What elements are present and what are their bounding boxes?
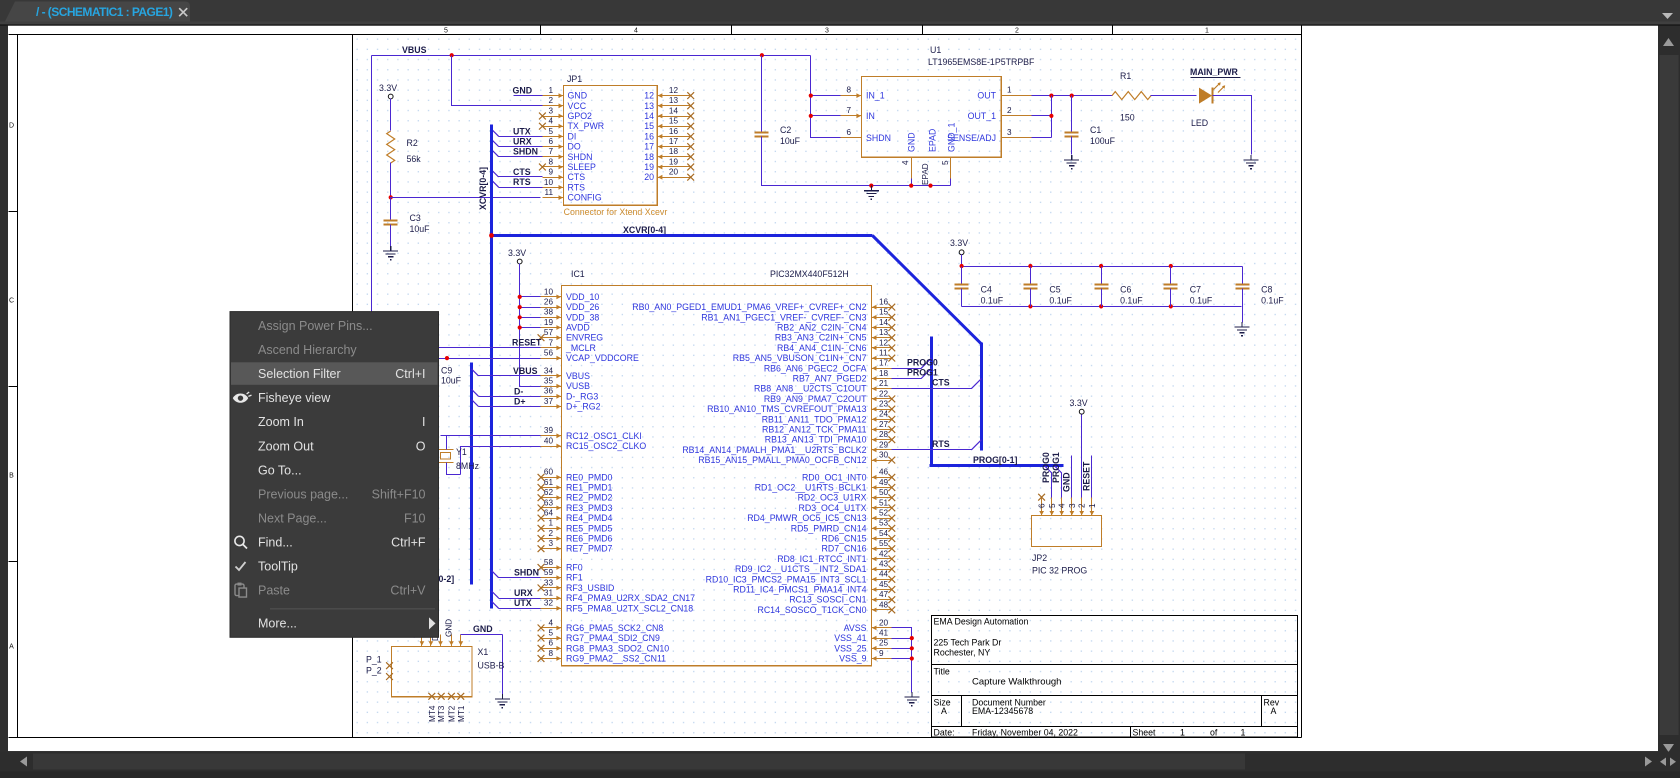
svg-text:C1: C1	[1090, 125, 1101, 135]
svg-text:2: 2	[548, 529, 553, 538]
svg-text:PROG1: PROG1	[907, 368, 938, 378]
svg-text:URX: URX	[514, 588, 533, 598]
svg-text:JP2: JP2	[1032, 553, 1047, 563]
svg-text:8MHz: 8MHz	[456, 461, 479, 471]
svg-text:R1: R1	[1120, 71, 1131, 81]
svg-text:Sheet: Sheet	[1133, 727, 1157, 737]
svg-text:Title: Title	[934, 667, 950, 677]
svg-text:58: 58	[544, 558, 554, 567]
svg-text:52: 52	[879, 509, 889, 518]
svg-text:GND_1: GND_1	[947, 123, 957, 152]
svg-text:CTS: CTS	[513, 167, 531, 177]
svg-text:13: 13	[644, 101, 654, 111]
svg-text:Selection Filter: Selection Filter	[258, 367, 341, 381]
svg-text:C7: C7	[1190, 285, 1201, 295]
svg-text:7: 7	[548, 338, 553, 347]
svg-text:LT1965EMS8E-1P5TRPBF: LT1965EMS8E-1P5TRPBF	[928, 57, 1035, 67]
svg-text:B: B	[9, 473, 14, 480]
svg-text:PIC 32 PROG: PIC 32 PROG	[1032, 566, 1087, 576]
svg-text:A: A	[941, 706, 947, 716]
svg-text:ToolTip: ToolTip	[258, 560, 298, 574]
svg-text:D+_RG2: D+_RG2	[566, 402, 601, 412]
svg-text:PIC32MX440F512H: PIC32MX440F512H	[770, 269, 849, 279]
svg-text:25: 25	[879, 639, 889, 648]
svg-text:RB15_AN15_PMALL_PMA0_OCFB_CN12: RB15_AN15_PMALL_PMA0_OCFB_CN12	[698, 455, 866, 465]
svg-text:GND: GND	[568, 91, 588, 101]
svg-text:RF5_PMA8_U2TX_SCL2_CN18: RF5_PMA8_U2TX_SCL2_CN18	[566, 603, 693, 613]
svg-text:30: 30	[879, 451, 889, 460]
svg-text:Ctrl+F: Ctrl+F	[391, 535, 426, 549]
svg-text:AVSS: AVSS	[844, 623, 867, 633]
svg-text:Connector for Xtend Xcevr: Connector for Xtend Xcevr	[564, 207, 668, 217]
svg-text:I: I	[422, 415, 425, 429]
svg-text:4: 4	[901, 160, 910, 165]
svg-text:RB7_AN7_PGED2: RB7_AN7_PGED2	[793, 374, 867, 384]
svg-text:Y1: Y1	[456, 447, 467, 457]
svg-text:RB0_AN0_PGED1_EMUD1_PMA6_VREF+: RB0_AN0_PGED1_EMUD1_PMA6_VREF+_CVREF+_CN…	[632, 302, 866, 312]
svg-text:61: 61	[544, 478, 554, 487]
svg-text:17: 17	[644, 142, 654, 152]
svg-text:Next Page...: Next Page...	[258, 511, 327, 525]
svg-text:RE7_PMD7: RE7_PMD7	[566, 544, 613, 554]
svg-text:RB3_AN3_C2IN+_CN5: RB3_AN3_C2IN+_CN5	[775, 333, 867, 343]
svg-text:URX: URX	[513, 137, 532, 147]
svg-text:A: A	[9, 644, 14, 651]
svg-text:Capture Walkthrough: Capture Walkthrough	[972, 677, 1061, 688]
svg-text:28: 28	[879, 430, 889, 439]
svg-text:TX_PWR: TX_PWR	[568, 121, 605, 131]
svg-text:MT2: MT2	[447, 705, 456, 722]
svg-text:Ctrl+V: Ctrl+V	[390, 584, 426, 598]
svg-text:9: 9	[548, 168, 553, 177]
svg-text:16: 16	[644, 131, 654, 141]
svg-text:EMA-12345678: EMA-12345678	[972, 706, 1033, 716]
svg-text:D: D	[9, 123, 14, 130]
svg-text:45: 45	[879, 580, 889, 589]
svg-text:RG6_PMA5_SCK2_CN8: RG6_PMA5_SCK2_CN8	[566, 623, 663, 633]
svg-text:of: of	[1210, 727, 1218, 737]
svg-text:2: 2	[1007, 106, 1012, 115]
svg-text:44: 44	[879, 570, 889, 579]
svg-text:2: 2	[1015, 28, 1019, 35]
svg-text:35: 35	[544, 377, 554, 386]
svg-text:RESET: RESET	[512, 338, 542, 348]
svg-text:LED: LED	[1191, 118, 1208, 128]
svg-text:Zoom Out: Zoom Out	[258, 439, 314, 453]
svg-text:RB14_AN14_PMALH_PMA1__U2RTS_BC: RB14_AN14_PMALH_PMA1__U2RTS_BCLK2	[682, 445, 866, 455]
svg-text:150: 150	[1120, 113, 1135, 123]
svg-text:6: 6	[548, 137, 553, 146]
svg-text:USB-B: USB-B	[478, 661, 505, 671]
svg-text:EPAD: EPAD	[928, 129, 938, 152]
svg-text:37: 37	[544, 397, 554, 406]
svg-text:PROG0: PROG0	[1041, 452, 1051, 483]
svg-text:13: 13	[879, 328, 889, 337]
svg-text:C6: C6	[1120, 285, 1131, 295]
svg-text:RG7_PMA4_SDI2_CN9: RG7_PMA4_SDI2_CN9	[566, 633, 660, 643]
svg-text:15: 15	[644, 121, 654, 131]
svg-text:10uF: 10uF	[780, 136, 801, 146]
svg-text:GND: GND	[473, 624, 493, 634]
svg-text:MT3: MT3	[437, 705, 446, 722]
svg-text:5: 5	[444, 28, 448, 35]
svg-text:63: 63	[544, 498, 554, 507]
svg-text:C5: C5	[1049, 285, 1060, 295]
svg-text:More...: More...	[258, 616, 297, 630]
svg-text:IC1: IC1	[571, 269, 585, 279]
svg-text:A: A	[1271, 706, 1277, 716]
svg-text:RG8_PMA3_SDO2_CN10: RG8_PMA3_SDO2_CN10	[566, 643, 669, 653]
svg-text:23: 23	[879, 400, 889, 409]
svg-text:12: 12	[879, 338, 889, 347]
svg-text:34: 34	[544, 366, 554, 375]
svg-text:RF1: RF1	[566, 573, 583, 583]
svg-text:RD8_IC1_RTCC_INT1: RD8_IC1_RTCC_INT1	[777, 554, 866, 564]
svg-text:SHDN: SHDN	[514, 568, 539, 578]
svg-text:VSS_41: VSS_41	[834, 633, 866, 643]
svg-text:Friday, November 04, 2022: Friday, November 04, 2022	[972, 727, 1078, 737]
svg-text:16: 16	[669, 127, 679, 136]
svg-text:RF4_PMA9_U2RX_SDA2_CN17: RF4_PMA9_U2RX_SDA2_CN17	[566, 593, 695, 603]
svg-text:RD9_IC2__U1CTS__INT2_SDA1: RD9_IC2__U1CTS__INT2_SDA1	[735, 564, 867, 574]
svg-text:12: 12	[644, 91, 654, 101]
svg-text:RE2_PMD2: RE2_PMD2	[566, 493, 613, 503]
svg-text:RESET: RESET	[1081, 461, 1091, 491]
svg-text:D+: D+	[514, 397, 526, 407]
svg-text:C8: C8	[1261, 285, 1272, 295]
svg-text:CTS: CTS	[568, 172, 586, 182]
svg-text:CTS: CTS	[932, 378, 950, 388]
svg-text:RC13_SOSCI_CN1: RC13_SOSCI_CN1	[789, 595, 866, 605]
svg-text:19: 19	[644, 162, 654, 172]
svg-text:RB9_AN9_PMA7_C2OUT: RB9_AN9_PMA7_C2OUT	[764, 394, 867, 404]
svg-text:C3: C3	[410, 213, 421, 223]
svg-text:8: 8	[548, 649, 553, 658]
svg-text:5: 5	[548, 629, 553, 638]
svg-text:/ - (SCHEMATIC1 : PAGE1): / - (SCHEMATIC1 : PAGE1)	[36, 5, 173, 19]
svg-text:P_2: P_2	[366, 666, 382, 676]
svg-text:VCAP_VDDCORE: VCAP_VDDCORE	[566, 353, 639, 363]
svg-text:19: 19	[544, 318, 554, 327]
svg-text:2: 2	[1078, 503, 1087, 508]
svg-text:VBUS: VBUS	[513, 366, 538, 376]
svg-text:UTX: UTX	[514, 598, 532, 608]
svg-text:1: 1	[1241, 727, 1246, 737]
svg-text:5: 5	[1048, 503, 1057, 508]
svg-text:59: 59	[544, 568, 554, 577]
svg-text:3.3V: 3.3V	[379, 83, 397, 93]
svg-text:_MCLR: _MCLR	[565, 343, 596, 353]
svg-text:53: 53	[879, 519, 889, 528]
svg-text:10uF: 10uF	[441, 376, 462, 386]
svg-text:X1: X1	[478, 647, 489, 657]
svg-text:10: 10	[544, 287, 554, 296]
svg-text:10: 10	[544, 178, 554, 187]
svg-text:3.3V: 3.3V	[508, 248, 526, 258]
svg-text:RD11_IC4_PMCS1_PMA14_INT4: RD11_IC4_PMCS1_PMA14_INT4	[733, 585, 866, 595]
svg-text:C4: C4	[981, 285, 992, 295]
svg-text:SHDN: SHDN	[513, 147, 538, 157]
svg-text:VSS_9: VSS_9	[839, 654, 866, 664]
svg-text:Shift+F10: Shift+F10	[372, 487, 426, 501]
svg-text:48: 48	[879, 600, 889, 609]
svg-text:RE0_PMD0: RE0_PMD0	[566, 472, 613, 482]
svg-text:8: 8	[548, 157, 553, 166]
svg-text:56k: 56k	[407, 154, 422, 164]
svg-text:6: 6	[548, 639, 553, 648]
svg-text:3.3V: 3.3V	[1070, 398, 1088, 408]
svg-text:C9: C9	[441, 366, 452, 376]
svg-text:6: 6	[846, 128, 851, 137]
svg-text:54: 54	[879, 529, 889, 538]
svg-text:0.1uF: 0.1uF	[1261, 296, 1284, 306]
svg-text:46: 46	[879, 468, 889, 477]
svg-text:3: 3	[825, 28, 829, 35]
svg-text:IN_1: IN_1	[866, 91, 885, 101]
svg-text:Date:: Date:	[934, 727, 955, 737]
svg-text:SLEEP: SLEEP	[568, 162, 596, 172]
svg-text:VCC: VCC	[568, 101, 587, 111]
svg-text:47: 47	[879, 590, 889, 599]
svg-text:225 Tech Park Dr: 225 Tech Park Dr	[934, 638, 1002, 648]
svg-text:MAIN_PWR: MAIN_PWR	[1190, 67, 1239, 77]
svg-text:36: 36	[544, 387, 554, 396]
svg-text:RE1_PMD1: RE1_PMD1	[566, 483, 613, 493]
svg-text:Go To...: Go To...	[258, 463, 302, 477]
svg-text:64: 64	[544, 509, 554, 518]
svg-text:F10: F10	[404, 511, 426, 525]
svg-text:39: 39	[544, 426, 554, 435]
svg-text:EPAD: EPAD	[921, 163, 930, 185]
svg-text:1: 1	[1180, 727, 1185, 737]
svg-text:20: 20	[669, 168, 679, 177]
svg-text:RTS: RTS	[513, 177, 531, 187]
svg-text:17: 17	[669, 137, 679, 146]
svg-text:RB10_AN10_TMS_CVREFOUT_PMA13: RB10_AN10_TMS_CVREFOUT_PMA13	[707, 404, 866, 414]
svg-text:100uF: 100uF	[1090, 136, 1116, 146]
svg-text:RD10_IC3_PMCS2_PMA15_INT3_SCL1: RD10_IC3_PMCS2_PMA15_INT3_SCL1	[706, 574, 867, 584]
svg-text:EMA Design Automation: EMA Design Automation	[934, 617, 1029, 627]
svg-text:JP1: JP1	[567, 74, 582, 84]
svg-text:18: 18	[644, 152, 654, 162]
svg-text:49: 49	[879, 478, 889, 487]
svg-text:RB4_AN4_C1IN-_CN6: RB4_AN4_C1IN-_CN6	[777, 343, 867, 353]
svg-text:60: 60	[544, 468, 554, 477]
svg-text:Ctrl+I: Ctrl+I	[395, 367, 425, 381]
svg-text:5: 5	[548, 127, 553, 136]
svg-text:RG9_PMA2__SS2_CN11: RG9_PMA2__SS2_CN11	[566, 654, 666, 664]
svg-text:OUT_1: OUT_1	[968, 111, 996, 121]
svg-text:18: 18	[669, 147, 679, 156]
svg-text:4: 4	[634, 28, 638, 35]
svg-text:14: 14	[669, 106, 679, 115]
svg-text:VDD_26: VDD_26	[566, 302, 599, 312]
svg-text:PROG0: PROG0	[907, 358, 938, 368]
svg-text:VDD_10: VDD_10	[566, 292, 599, 302]
svg-text:27: 27	[879, 420, 889, 429]
svg-text:RTS: RTS	[568, 182, 586, 192]
svg-text:XCVR[0-4]: XCVR[0-4]	[623, 225, 666, 235]
svg-text:11: 11	[545, 188, 554, 197]
svg-text:3: 3	[1068, 503, 1077, 508]
svg-text:GND: GND	[513, 86, 533, 96]
svg-text:8: 8	[846, 86, 851, 95]
svg-text:5: 5	[941, 160, 950, 165]
svg-text:1: 1	[1088, 503, 1097, 508]
svg-text:33: 33	[544, 578, 554, 587]
svg-text:31: 31	[544, 589, 554, 598]
svg-text:RD6_CN15: RD6_CN15	[822, 534, 867, 544]
svg-text:RD5_PMRD_CN14: RD5_PMRD_CN14	[791, 523, 867, 533]
svg-text:1: 1	[1205, 28, 1209, 35]
svg-text:14: 14	[879, 318, 889, 327]
svg-text:RD3_OC4_U1TX: RD3_OC4_U1TX	[799, 503, 867, 513]
svg-text:RF3_USBID: RF3_USBID	[566, 583, 614, 593]
svg-text:Paste: Paste	[258, 584, 290, 598]
svg-text:Zoom In: Zoom In	[258, 415, 304, 429]
svg-text:RC15_OSC2_CLKO: RC15_OSC2_CLKO	[566, 441, 646, 451]
svg-text:RD2_OC3_U1RX: RD2_OC3_U1RX	[798, 493, 867, 503]
svg-text:RD1_OC2__U1RTS_BCLK1: RD1_OC2__U1RTS_BCLK1	[755, 483, 867, 493]
svg-text:RB11_AN11_TDO_PMA12: RB11_AN11_TDO_PMA12	[762, 414, 867, 424]
svg-text:DO: DO	[568, 142, 581, 152]
svg-text:32: 32	[544, 599, 554, 608]
svg-text:16: 16	[879, 298, 889, 307]
svg-text:RE3_PMD3: RE3_PMD3	[566, 503, 613, 513]
svg-text:MT4: MT4	[428, 705, 437, 722]
svg-text:XCVR[0-4]: XCVR[0-4]	[478, 167, 488, 210]
svg-text:51: 51	[879, 498, 889, 507]
svg-text:41: 41	[879, 629, 889, 638]
svg-text:GPO2: GPO2	[568, 111, 593, 121]
svg-text:RD4_PMWR_OC5_IC5_CN13: RD4_PMWR_OC5_IC5_CN13	[747, 513, 866, 523]
svg-text:0.1uF: 0.1uF	[981, 296, 1004, 306]
svg-text:21: 21	[879, 379, 889, 388]
svg-text:0.1uF: 0.1uF	[1049, 296, 1072, 306]
svg-text:1: 1	[548, 519, 553, 528]
svg-text:Rochester, NY: Rochester, NY	[934, 648, 991, 658]
svg-text:PROG1: PROG1	[1051, 452, 1061, 483]
svg-text:GND: GND	[1061, 472, 1071, 492]
svg-text:GND: GND	[445, 619, 454, 637]
svg-text:RD7_CN16: RD7_CN16	[822, 544, 867, 554]
svg-text:20: 20	[879, 618, 889, 627]
svg-text:SHDN: SHDN	[568, 152, 593, 162]
svg-text:AVDD: AVDD	[566, 323, 590, 333]
svg-text:7: 7	[548, 147, 553, 156]
svg-text:24: 24	[879, 410, 889, 419]
svg-text:7: 7	[846, 106, 851, 115]
svg-text:C: C	[9, 298, 14, 305]
svg-text:3.3V: 3.3V	[950, 238, 968, 248]
svg-text:DI: DI	[568, 131, 577, 141]
svg-text:SHDN: SHDN	[866, 133, 891, 143]
svg-text:18: 18	[879, 369, 889, 378]
svg-text:57: 57	[544, 328, 554, 337]
svg-text:Ascend Hierarchy: Ascend Hierarchy	[258, 343, 357, 357]
svg-text:26: 26	[544, 298, 554, 307]
svg-text:6: 6	[1038, 503, 1047, 508]
svg-text:14: 14	[644, 111, 654, 121]
svg-text:Previous page...: Previous page...	[258, 487, 348, 501]
svg-text:1: 1	[548, 86, 553, 95]
svg-text:RC12_OSC1_CLKI: RC12_OSC1_CLKI	[566, 431, 642, 441]
svg-text:UTX: UTX	[513, 126, 531, 136]
svg-text:3: 3	[548, 106, 553, 115]
svg-text:20: 20	[644, 172, 654, 182]
svg-text:RE6_PMD6: RE6_PMD6	[566, 534, 613, 544]
svg-text:0.1uF: 0.1uF	[1120, 296, 1143, 306]
svg-text:IN: IN	[866, 111, 875, 121]
svg-text:2: 2	[548, 96, 553, 105]
svg-text:50: 50	[879, 488, 889, 497]
svg-text:56: 56	[544, 349, 554, 358]
svg-text:17: 17	[879, 359, 889, 368]
svg-text:RB5_AN5_VBUSON_C1IN+_CN7: RB5_AN5_VBUSON_C1IN+_CN7	[733, 353, 867, 363]
svg-text:29: 29	[879, 440, 889, 449]
svg-text:RC14_SOSCO_T1CK_CN0: RC14_SOSCO_T1CK_CN0	[757, 605, 866, 615]
svg-text:1: 1	[1007, 86, 1012, 95]
svg-text:62: 62	[544, 488, 554, 497]
svg-text:RB1_AN1_PGEC1_VREF-_CVREF-_CN3: RB1_AN1_PGEC1_VREF-_CVREF-_CN3	[701, 312, 866, 322]
svg-text:VBUS: VBUS	[566, 371, 590, 381]
svg-text:RB6_AN6_PGEC2_OCFA: RB6_AN6_PGEC2_OCFA	[764, 363, 867, 373]
svg-text:43: 43	[879, 560, 889, 569]
svg-text:VUSB: VUSB	[566, 381, 590, 391]
svg-text:4: 4	[1058, 503, 1067, 508]
svg-text:C2: C2	[780, 125, 791, 135]
svg-text:38: 38	[544, 308, 554, 317]
svg-text:OUT: OUT	[977, 91, 996, 101]
svg-text:VSS_25: VSS_25	[834, 643, 866, 653]
svg-text:13: 13	[669, 96, 679, 105]
svg-text:CONFIG: CONFIG	[568, 193, 602, 203]
svg-text:D-: D-	[514, 386, 523, 396]
svg-text:Fisheye view: Fisheye view	[258, 391, 331, 405]
svg-text:D-_RG3: D-_RG3	[566, 391, 598, 401]
svg-text:RTS: RTS	[932, 439, 950, 449]
svg-text:R2: R2	[407, 138, 418, 148]
svg-text:VBUS: VBUS	[402, 45, 427, 55]
svg-text:RD0_OC1_INT0: RD0_OC1_INT0	[802, 472, 867, 482]
svg-text:12: 12	[669, 86, 679, 95]
svg-text:RB12_AN12_TCK_PMA11: RB12_AN12_TCK_PMA11	[762, 425, 867, 435]
svg-text:RF0: RF0	[566, 563, 583, 573]
svg-text:P_1: P_1	[366, 655, 382, 665]
svg-text:RE4_PMD4: RE4_PMD4	[566, 513, 613, 523]
svg-text:4: 4	[548, 117, 553, 126]
svg-text:ENVREG: ENVREG	[566, 333, 603, 343]
svg-text:9: 9	[879, 649, 884, 658]
svg-text:15: 15	[879, 308, 889, 317]
svg-text:RE5_PMD5: RE5_PMD5	[566, 523, 613, 533]
svg-text:RB13_AN13_TDI_PMA10: RB13_AN13_TDI_PMA10	[765, 435, 867, 445]
svg-text:GND: GND	[907, 132, 917, 152]
svg-text:11: 11	[879, 349, 888, 358]
svg-text:MT1: MT1	[457, 705, 466, 722]
svg-text:10uF: 10uF	[410, 224, 431, 234]
svg-text:42: 42	[879, 549, 889, 558]
svg-text:U1: U1	[930, 45, 941, 55]
svg-text:40: 40	[544, 436, 554, 445]
svg-text:PROG[0-1]: PROG[0-1]	[973, 455, 1018, 465]
svg-text:19: 19	[669, 157, 679, 166]
svg-text:22: 22	[879, 389, 889, 398]
svg-text:O: O	[416, 439, 426, 453]
svg-text:3: 3	[548, 539, 553, 548]
svg-text:15: 15	[669, 117, 679, 126]
svg-text:3: 3	[1007, 128, 1012, 137]
